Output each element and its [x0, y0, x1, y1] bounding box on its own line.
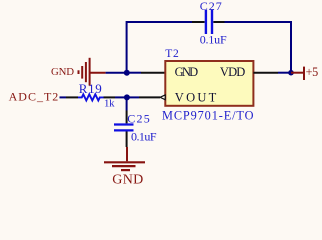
resistor R19: [66, 94, 115, 100]
node GND junction: [124, 70, 130, 76]
svg-text:GND: GND: [112, 173, 143, 188]
wire junction down to C25: [126, 97, 128, 110]
pin VDD lead: [253, 72, 278, 74]
pin GND (U T2 pin lead): [141, 72, 165, 74]
wire junction to GND pin: [127, 72, 141, 74]
node +5 junction: [288, 70, 294, 76]
svg-text:+5: +5: [306, 65, 319, 79]
capacitor C27: [192, 10, 225, 34]
svg-text:R19: R19: [79, 81, 102, 96]
svg-text:C27: C27: [200, 0, 222, 13]
power +5 bar symbol: [291, 67, 304, 80]
wire R19 to VOUT junction: [115, 96, 127, 98]
pin VOUT lead with output triangle: [139, 95, 165, 100]
wire VDD to +5 node: [278, 72, 291, 74]
svg-text:0.1uF: 0.1uF: [200, 32, 227, 46]
svg-text:ADC_T2: ADC_T2: [9, 90, 59, 104]
svg-text:C25: C25: [127, 112, 150, 126]
IC T2 MCP9701 body: [165, 61, 253, 106]
svg-text:VDD: VDD: [220, 65, 245, 79]
wire junction to VOUT pin: [127, 96, 139, 98]
wire GND net to junction: [106, 72, 127, 74]
svg-text:GND: GND: [175, 65, 199, 79]
ground GND (bottom earth): [104, 147, 145, 170]
capacitor C25: [114, 111, 134, 148]
wire ADC_T2 to R19: [60, 96, 67, 98]
wire top rail right segment (C27 to +5 node): [225, 22, 292, 73]
svg-text:0.1uF: 0.1uF: [131, 129, 157, 143]
ground GND (left power ground): [79, 58, 106, 86]
svg-text:T2: T2: [165, 48, 179, 60]
svg-text:1k: 1k: [104, 97, 115, 109]
node VOUT junction: [124, 94, 130, 100]
wire top rail left segment (GND net to C27): [127, 22, 192, 73]
svg-text:GND: GND: [51, 66, 74, 78]
svg-text:MCP9701-E/TO: MCP9701-E/TO: [162, 109, 254, 123]
